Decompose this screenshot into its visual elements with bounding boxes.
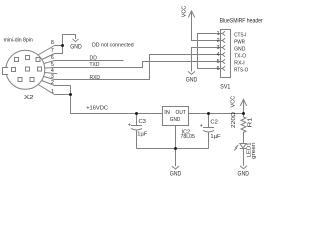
- X2 pad 6: [15, 58, 19, 62]
- wire pin7 up to pin8 junction: [55, 46, 63, 54]
- X2 pin 3 stub: [44, 77, 55, 80]
- supply VCC arrow right: [240, 99, 246, 113]
- wire OUT to VCC column: [189, 113, 244, 115]
- svg-text:+16VDC: +16VDC: [86, 105, 108, 111]
- wire ground rail bottom: [137, 148, 209, 150]
- connector X2 mini-din 8pin body: [3, 50, 45, 89]
- X2 pad 2: [30, 78, 34, 82]
- wire RXD net pin3 to header TX-O: [55, 55, 221, 80]
- svg-text:2: 2: [217, 38, 220, 44]
- X2 pad 5: [38, 67, 42, 71]
- svg-text:CTS-I: CTS-I: [234, 32, 247, 38]
- ground symbol under IC: [172, 166, 179, 169]
- capacitor C3 plates: [131, 126, 142, 131]
- capacitor C3 bottom lead: [136, 130, 138, 149]
- junction C3 tap: [135, 112, 138, 115]
- resistor R1 zigzag: [241, 114, 246, 144]
- junction p1/p2: [69, 93, 72, 96]
- wire +16VDC rail: [71, 86, 163, 114]
- junction ground rail: [174, 147, 177, 150]
- svg-text:DD not connected: DD not connected: [92, 42, 134, 48]
- svg-text:PWR: PWR: [234, 39, 245, 45]
- svg-text:IN: IN: [164, 110, 170, 116]
- svg-text:78L05: 78L05: [181, 134, 195, 140]
- header pin contacts: [221, 31, 226, 70]
- svg-text:5: 5: [217, 59, 220, 65]
- svg-text:VCC: VCC: [181, 6, 187, 18]
- capacitor C2 bottom lead: [208, 132, 210, 149]
- svg-text:RXD: RXD: [90, 75, 101, 81]
- svg-text:TX-O: TX-O: [234, 53, 246, 59]
- wire junction up to GND symbol: [63, 35, 76, 46]
- X2 pin 5 stub: [45, 67, 55, 70]
- capacitor C2 top lead: [208, 114, 210, 128]
- svg-text:C2: C2: [210, 120, 217, 126]
- ground symbol top: [73, 39, 79, 42]
- svg-text:6: 6: [217, 66, 220, 72]
- svg-text:C3: C3: [139, 119, 146, 125]
- wire header GND pin3: [192, 48, 221, 72]
- svg-text:R1: R1: [248, 117, 254, 127]
- svg-text:GND: GND: [170, 117, 181, 123]
- svg-text:+: +: [128, 122, 131, 128]
- svg-text:mini-din 8pin: mini-din 8pin: [4, 38, 33, 44]
- X2 pin 8 stub: [38, 46, 55, 56]
- svg-text:DD: DD: [90, 55, 97, 61]
- pin numbers SV1: [217, 31, 220, 72]
- svg-text:1: 1: [217, 31, 220, 37]
- svg-text:BlueSMiRF header: BlueSMiRF header: [220, 17, 263, 24]
- wire pin8 to GND junction: [55, 45, 63, 47]
- junction p8/p7: [61, 44, 64, 47]
- svg-text:6: 6: [51, 55, 54, 61]
- IC2 78L05 box: [163, 107, 189, 126]
- wire IC GND lead down: [175, 126, 177, 167]
- junction VCC tap: [242, 112, 245, 115]
- capacitor C3 top lead: [136, 114, 138, 126]
- svg-text:TXD: TXD: [90, 62, 100, 68]
- wire pin2: [55, 85, 71, 87]
- svg-text:VCC: VCC: [230, 96, 236, 108]
- wire LED to ground: [243, 149, 245, 166]
- X2 pin 7 stub: [42, 54, 55, 60]
- svg-text:GND: GND: [234, 46, 245, 52]
- capacitor C2 plates: [203, 128, 214, 133]
- svg-text:3: 3: [217, 45, 220, 51]
- svg-text:GND: GND: [170, 171, 182, 177]
- svg-text:green: green: [251, 142, 257, 159]
- X2 pad 8: [36, 58, 40, 62]
- X2 pin 2 stub: [42, 81, 55, 86]
- header SV1 box: [221, 30, 231, 78]
- X2 pad 1: [18, 78, 22, 82]
- svg-text:1: 1: [51, 89, 54, 95]
- supply VCC arrow top with wire to PWR: [188, 11, 220, 41]
- ground symbol under LED: [240, 166, 247, 169]
- X2 pin 1 stub: [38, 85, 54, 95]
- wire CTS-I to RTS-O loopback: [198, 34, 221, 69]
- svg-text:OUT: OUT: [176, 110, 187, 116]
- X2 pin 4 stub: [45, 73, 58, 74]
- X2 pad 3: [12, 68, 16, 72]
- svg-text:GND: GND: [186, 78, 198, 84]
- ground symbol header: [188, 71, 195, 74]
- svg-text:1µF: 1µF: [137, 132, 148, 138]
- svg-text:2: 2: [51, 80, 54, 86]
- junction C2 tap: [207, 112, 210, 115]
- svg-text:7: 7: [51, 48, 54, 54]
- pin numbers X2: [51, 40, 54, 95]
- X2 pin 6 stub: [44, 61, 55, 64]
- svg-text:GND: GND: [70, 44, 82, 50]
- svg-text:8: 8: [51, 40, 54, 46]
- LED1 symbol: [234, 144, 246, 151]
- svg-text:GND: GND: [238, 172, 250, 178]
- wire DD net (pin 6): [55, 60, 124, 62]
- svg-text:X2: X2: [24, 95, 34, 101]
- svg-text:SV1: SV1: [220, 83, 230, 90]
- svg-text:4: 4: [217, 52, 220, 58]
- svg-text:1µF: 1µF: [210, 134, 221, 140]
- wire pin1: [55, 94, 71, 96]
- wire TXD net pin5 to header RX-I: [55, 62, 221, 68]
- svg-text:RTS-O: RTS-O: [234, 67, 248, 73]
- svg-text:+: +: [200, 123, 203, 129]
- X2 pad 7: [26, 56, 30, 60]
- X2 pad 4: [26, 67, 30, 71]
- svg-text:RX-I: RX-I: [234, 60, 245, 66]
- svg-text:220Ω: 220Ω: [231, 111, 237, 128]
